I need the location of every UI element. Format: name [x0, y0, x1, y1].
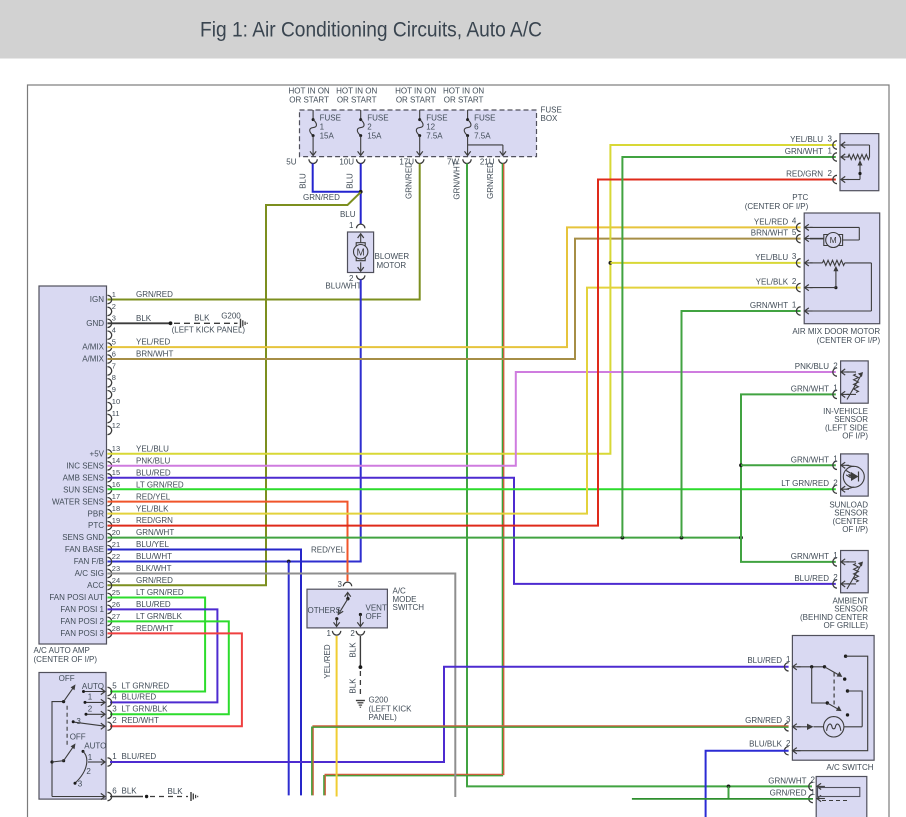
svg-text:GND: GND — [86, 319, 104, 328]
label A/C AUTO AMP — [34, 646, 98, 664]
svg-text:BLK: BLK — [194, 314, 210, 323]
HOT IN ON OR START label (fuse 2) — [336, 87, 377, 105]
wire BLU/YEL amp pin 21 — [108, 550, 302, 796]
fan switch wafer 1 contacts — [72, 682, 105, 729]
svg-text:RED/WHT: RED/WHT — [136, 624, 173, 633]
svg-text:2: 2 — [811, 776, 816, 785]
svg-text:BLU/WHT: BLU/WHT — [325, 282, 361, 291]
svg-text:(CENTER OF I/P): (CENTER OF I/P) — [34, 655, 98, 664]
connector 10U — [339, 158, 365, 167]
svg-text:1: 1 — [792, 300, 797, 309]
wire BLU from 10U to blower — [360, 164, 362, 225]
svg-text:3: 3 — [786, 715, 791, 724]
wire BLU/RED amp pin 15 to ambient sensor pin 2 — [108, 478, 836, 584]
air mix pin 4 connector — [754, 217, 813, 232]
svg-text:10: 10 — [112, 397, 120, 406]
svg-text:(LEFT KICK PANEL): (LEFT KICK PANEL) — [172, 326, 246, 335]
svg-text:SUN SENS: SUN SENS — [63, 485, 104, 494]
air mix pin 5 connector — [751, 228, 813, 243]
svg-text:BLOWER: BLOWER — [375, 252, 410, 261]
svg-text:IGN: IGN — [90, 295, 104, 304]
wire GRN/WHT sensor ground bus — [108, 537, 742, 539]
svg-text:YEL/BLU: YEL/BLU — [136, 444, 169, 453]
svg-text:INC SENS: INC SENS — [66, 461, 104, 470]
svg-text:BLK: BLK — [136, 314, 152, 323]
svg-text:PNK/BLU: PNK/BLU — [136, 456, 170, 465]
fuse 12 (7.5A) — [416, 110, 447, 156]
svg-text:4: 4 — [112, 692, 117, 701]
svg-text:LT GRN/BLK: LT GRN/BLK — [136, 612, 183, 621]
junction dot bus sensor branch — [739, 536, 743, 540]
svg-text:BLU/RED: BLU/RED — [136, 600, 171, 609]
svg-text:LT GRN/RED: LT GRN/RED — [136, 588, 184, 597]
wire BLU/RED amp pin 26 to fan switch pin 4 — [108, 609, 218, 702]
svg-text:GRN/RED: GRN/RED — [136, 290, 173, 299]
svg-text:26: 26 — [112, 600, 120, 609]
svg-text:2: 2 — [350, 629, 355, 638]
svg-text:OFF: OFF — [59, 674, 75, 683]
fan switch wafer 2 arm — [64, 732, 86, 760]
amp pin 28 (FAN POSI 3) — [60, 624, 173, 638]
svg-text:6: 6 — [474, 123, 479, 132]
amp pin 13 (+5V) — [90, 444, 170, 458]
svg-text:HOT IN ON: HOT IN ON — [289, 87, 330, 96]
amp pin 23 (A/C SIG) — [75, 564, 172, 578]
connector 17U — [399, 158, 424, 167]
amp pin 1 (IGN) — [90, 290, 173, 304]
svg-text:GRN/RED: GRN/RED — [770, 789, 807, 798]
svg-text:7: 7 — [112, 361, 116, 370]
svg-text:4: 4 — [792, 217, 797, 226]
svg-text:2: 2 — [112, 716, 117, 725]
PTC pin 1 connector — [785, 146, 849, 161]
svg-text:1: 1 — [833, 384, 838, 393]
label IN-VEHICLE SENSOR — [823, 407, 868, 441]
svg-text:12: 12 — [112, 421, 120, 430]
svg-text:+5V: +5V — [90, 449, 105, 458]
fan switch pin 5 — [108, 682, 170, 696]
svg-text:GRN/RED: GRN/RED — [303, 193, 340, 202]
svg-text:25: 25 — [112, 588, 120, 597]
svg-text:(LEFT KICK: (LEFT KICK — [369, 704, 413, 713]
fuse box — [300, 106, 562, 157]
amp pin 5 (A/MIX) — [82, 338, 170, 352]
svg-text:8: 8 — [112, 373, 116, 382]
junction dot BLU/WHT — [287, 560, 291, 564]
fan switch pin 6 common to ground — [52, 793, 105, 799]
svg-text:GRN/RED: GRN/RED — [405, 162, 414, 199]
svg-text:28: 28 — [112, 624, 120, 633]
svg-text:BLU/YEL: BLU/YEL — [136, 540, 169, 549]
label GRN/RED (ACC net) — [303, 193, 340, 202]
fan switch wafer 2 pivot — [50, 759, 65, 764]
svg-text:FAN F/B: FAN F/B — [74, 557, 104, 566]
svg-text:18: 18 — [112, 504, 120, 513]
wire GRN/WHT from 7W — [467, 164, 812, 787]
A/C switch pin 2 connector — [749, 739, 801, 755]
amp pin 7 — [108, 361, 116, 375]
svg-text:2: 2 — [833, 361, 838, 370]
mode switch labels — [308, 603, 387, 621]
amp pin 12 — [108, 421, 121, 435]
svg-text:11: 11 — [112, 409, 120, 418]
junction dot sunload pin 1 — [739, 463, 743, 467]
svg-text:PNK/BLU: PNK/BLU — [795, 362, 829, 371]
svg-text:RED/WHT: RED/WHT — [122, 716, 159, 725]
label SUNLOAD SENSOR — [829, 501, 868, 535]
amp pin 3 (GND) — [86, 314, 152, 328]
fan switch pin 1 — [108, 752, 157, 766]
svg-text:GRN/WHT: GRN/WHT — [791, 384, 829, 393]
svg-text:15A: 15A — [320, 131, 335, 140]
wire YEL/RED mode switch pin 1 — [336, 636, 338, 797]
svg-text:PTC: PTC — [88, 521, 104, 530]
label PTC — [745, 193, 809, 211]
wire BLK amp pin 3 to G200 — [108, 311, 248, 334]
amp pin 16 (SUN SENS) — [63, 480, 184, 494]
svg-text:OR START: OR START — [289, 95, 329, 104]
svg-text:A/MIX: A/MIX — [82, 355, 104, 364]
svg-text:GRN/WHT: GRN/WHT — [785, 147, 823, 156]
svg-text:GRN/WHT: GRN/WHT — [136, 528, 174, 537]
connector 21U — [480, 158, 507, 167]
label BLK lower (rotated) — [349, 678, 358, 694]
wire RED/GRN amp pin 19 to PTC pin 2 — [108, 180, 836, 526]
air mix potentiometer — [805, 260, 871, 311]
svg-text:AMB SENS: AMB SENS — [63, 473, 104, 482]
wire GRN/RED to A/C switch pin 3 (green line) — [312, 727, 789, 795]
svg-text:OF I/P): OF I/P) — [842, 432, 868, 441]
svg-text:BOX: BOX — [541, 114, 559, 123]
A/C switch box — [792, 636, 874, 761]
in-vehicle thermistor — [847, 372, 864, 400]
amp pin 26 (FAN POSI 1) — [60, 600, 170, 614]
svg-text:2: 2 — [833, 479, 838, 488]
svg-text:2: 2 — [86, 767, 91, 776]
svg-text:SENS GND: SENS GND — [62, 533, 104, 542]
svg-text:5U: 5U — [286, 158, 296, 167]
junction dot bus PTC branch — [621, 536, 625, 540]
svg-text:2: 2 — [88, 705, 93, 714]
svg-text:22: 22 — [112, 552, 120, 561]
svg-text:1: 1 — [88, 753, 93, 762]
svg-text:GRN/WHT: GRN/WHT — [453, 161, 462, 199]
svg-text:1: 1 — [833, 455, 838, 464]
label YEL/RED (rotated) — [323, 644, 332, 678]
ambient pin 1 connector — [791, 551, 849, 566]
label GRN/WHT (7W wire) — [453, 161, 462, 199]
svg-text:BLU/RED: BLU/RED — [136, 468, 171, 477]
amp pin 6 (A/MIX) — [82, 349, 173, 363]
wire BLK fan switch pin 6 to ground — [110, 787, 198, 801]
wire GRN/RED 17U to IGN pin 1 — [108, 164, 420, 300]
wire BRN/WHT amp pin 6 to air mix pin 5 — [108, 239, 801, 359]
A/C switch lamp — [797, 717, 862, 737]
fan switch wafer 1 common — [52, 700, 65, 797]
label A/C MODE SWITCH — [393, 587, 425, 613]
svg-text:BLU: BLU — [340, 210, 356, 219]
svg-text:OFF: OFF — [366, 612, 382, 621]
amp pin 11 — [108, 409, 120, 423]
ambient sensor box — [841, 551, 869, 593]
wire GRN/RED to thermo amp pin 1 — [632, 798, 813, 800]
label BLU/WHT (blower) — [325, 282, 361, 291]
svg-text:A/C SWITCH: A/C SWITCH — [826, 763, 873, 772]
A/C mode switch box — [307, 589, 387, 628]
svg-text:OFF: OFF — [70, 732, 86, 741]
in-vehicle pin 1 connector — [791, 384, 849, 399]
svg-text:ACC: ACC — [87, 581, 104, 590]
svg-text:1: 1 — [327, 629, 332, 638]
svg-text:13: 13 — [112, 444, 120, 453]
fan switch pin 2 — [108, 716, 159, 730]
svg-text:WATER SENS: WATER SENS — [52, 497, 104, 506]
svg-text:BRN/WHT: BRN/WHT — [136, 350, 173, 359]
svg-text:AUTO: AUTO — [84, 742, 106, 751]
title bar — [0, 0, 906, 59]
ambient thermistor — [847, 562, 864, 590]
air mix door motor box — [804, 213, 880, 324]
svg-text:BLK: BLK — [349, 642, 358, 658]
wire BLK/WHT amp pin 23 — [108, 574, 456, 798]
label GRN/RED (17U wire) — [405, 162, 414, 199]
svg-text:BLK: BLK — [349, 678, 358, 694]
svg-text:21: 21 — [112, 540, 120, 549]
svg-text:LT GRN/BLK: LT GRN/BLK — [122, 704, 169, 713]
svg-text:5: 5 — [792, 228, 797, 237]
amp pin 19 (PTC) — [88, 516, 173, 530]
svg-text:RED/GRN: RED/GRN — [786, 170, 823, 179]
amp pin 9 — [108, 385, 116, 399]
wire LT GRN/BLK amp pin 27 to fan switch pin 3 — [108, 621, 229, 714]
HOT IN ON OR START label (fuse 6) — [443, 87, 484, 105]
fan switch mechanical link (dashed) — [66, 706, 68, 748]
svg-text:3: 3 — [338, 580, 343, 589]
wire RED/WHT amp pin 28 to fan switch pin 2 — [108, 633, 242, 726]
amp pin 21 (FAN BASE) — [65, 540, 170, 554]
PTC pin 3 connector — [790, 134, 849, 149]
amp pin 14 (INC SENS) — [66, 456, 170, 470]
amp pin 22 (FAN F/B) — [74, 552, 172, 566]
connector 7W — [447, 158, 471, 167]
amp pin 2 — [108, 302, 116, 316]
wire BLU/BLK to A/C switch pin 2 — [706, 751, 789, 817]
amp pin 4 — [108, 326, 116, 340]
amp pin 17 (WATER SENS) — [52, 492, 171, 506]
svg-text:GRN/RED: GRN/RED — [486, 162, 495, 199]
svg-text:YEL/RED: YEL/RED — [323, 644, 332, 678]
label AIR MIX DOOR MOTOR — [792, 327, 880, 345]
svg-text:AIR MIX DOOR MOTOR: AIR MIX DOOR MOTOR — [792, 327, 880, 336]
PTC pin 2 connector — [786, 169, 849, 184]
amp pin 18 (PBR) — [88, 504, 170, 518]
svg-text:PANEL): PANEL) — [369, 713, 398, 722]
svg-text:6: 6 — [112, 787, 117, 796]
svg-text:FUSE: FUSE — [367, 114, 388, 123]
svg-text:FAN BASE: FAN BASE — [65, 545, 104, 554]
svg-text:YEL/BLK: YEL/BLK — [136, 504, 169, 513]
svg-text:A/C AUTO AMP: A/C AUTO AMP — [34, 646, 90, 655]
svg-text:9: 9 — [112, 385, 116, 394]
fan switch wafer 2 contacts — [74, 742, 107, 789]
svg-text:BLU/RED: BLU/RED — [794, 574, 829, 583]
svg-text:1: 1 — [786, 655, 791, 664]
label G200 (mode switch) — [369, 696, 413, 723]
connector 5U — [286, 158, 317, 167]
mode switch pin 2 connector — [350, 629, 364, 638]
svg-text:RED/YEL: RED/YEL — [136, 492, 171, 501]
svg-text:BLK/WHT: BLK/WHT — [136, 564, 172, 573]
svg-text:FUSE: FUSE — [426, 114, 447, 123]
blower motor M symbol — [354, 243, 368, 261]
svg-text:SWITCH: SWITCH — [393, 603, 425, 612]
svg-text:23: 23 — [112, 564, 120, 573]
label BLK upper (rotated) — [349, 642, 358, 658]
svg-text:FAN POSI 1: FAN POSI 1 — [60, 605, 104, 614]
wire GRN/WHT PTC pin 1 branch — [622, 157, 835, 538]
svg-text:1: 1 — [349, 221, 354, 230]
wire RED/YEL amp pin 17 to mode switch pin 3 — [108, 502, 348, 582]
svg-text:G200: G200 — [221, 311, 241, 320]
svg-text:YEL/RED: YEL/RED — [136, 338, 170, 347]
svg-text:10U: 10U — [339, 158, 354, 167]
svg-text:A/MIX: A/MIX — [82, 343, 104, 352]
sunload pin 1 connector — [791, 455, 849, 470]
svg-text:OR START: OR START — [337, 95, 377, 104]
junction dot bus air mix branch — [680, 536, 684, 540]
svg-text:1: 1 — [112, 290, 116, 299]
svg-text:3: 3 — [828, 134, 833, 143]
svg-text:BRN/WHT: BRN/WHT — [751, 229, 788, 238]
svg-text:RED/YEL: RED/YEL — [311, 545, 346, 554]
svg-text:15: 15 — [112, 468, 120, 477]
svg-text:YEL/BLU: YEL/BLU — [790, 135, 823, 144]
amp pin 15 (AMB SENS) — [63, 468, 171, 482]
svg-text:AUTO: AUTO — [82, 682, 104, 691]
junction dot GRN/WHT bottom — [727, 785, 731, 789]
wire YEL/RED amp pin 5 to air mix pin 4 — [108, 227, 801, 347]
svg-text:LT GRN/RED: LT GRN/RED — [781, 479, 829, 488]
A/C switch pin 3 connector — [745, 715, 800, 731]
svg-text:24: 24 — [112, 576, 120, 585]
svg-text:3: 3 — [792, 252, 797, 261]
A/C switch pin 1 connector — [747, 655, 800, 671]
svg-text:OR START: OR START — [444, 95, 484, 104]
svg-text:LT GRN/RED: LT GRN/RED — [136, 480, 184, 489]
svg-text:BLK: BLK — [122, 787, 138, 796]
wire LT GRN/RED amp pin 25 to fan switch pin 5 — [108, 597, 206, 691]
svg-text:FAN POSI AUT: FAN POSI AUT — [49, 593, 104, 602]
svg-text:PTC: PTC — [792, 193, 808, 202]
wire LT GRN/RED amp pin 16 to sunload sensor pin 2 — [108, 488, 836, 490]
svg-text:1: 1 — [88, 693, 93, 702]
svg-text:12: 12 — [426, 123, 435, 132]
svg-text:3: 3 — [76, 717, 81, 726]
svg-text:3: 3 — [78, 780, 83, 789]
svg-text:1: 1 — [112, 752, 117, 761]
wire BLU/WHT branch down — [288, 562, 290, 796]
fan switch wafer 1 arm — [59, 674, 76, 702]
svg-text:16: 16 — [112, 480, 120, 489]
PTC internal resistor — [847, 145, 870, 180]
svg-text:FAN POSI 3: FAN POSI 3 — [60, 629, 104, 638]
amp pin 27 (FAN POSI 2) — [60, 612, 182, 626]
wire GRN/WHT sensors vertical — [741, 394, 836, 562]
svg-text:YEL/BLK: YEL/BLK — [756, 278, 789, 287]
svg-text:OF GRILLE): OF GRILLE) — [824, 621, 869, 630]
svg-text:M: M — [357, 248, 365, 259]
svg-text:OR START: OR START — [396, 95, 436, 104]
svg-text:GRN/WHT: GRN/WHT — [750, 301, 788, 310]
svg-text:GRN/WHT: GRN/WHT — [791, 552, 829, 561]
svg-text:(CENTER OF I/P): (CENTER OF I/P) — [745, 202, 809, 211]
amp pin 20 (SENS GND) — [62, 528, 174, 542]
svg-text:PBR: PBR — [88, 509, 105, 518]
wire GRN/RED ACC net — [108, 192, 361, 585]
label A/C SWITCH — [826, 763, 873, 772]
fan switch box — [39, 673, 106, 800]
svg-text:20: 20 — [112, 528, 120, 537]
svg-text:BLU/BLK: BLU/BLK — [749, 740, 783, 749]
wire BLU/RED fan switch pin 1 to A/C switch pin 1 — [110, 667, 789, 762]
wire YEL/BLK amp pin 18 to air mix pin 2 — [108, 288, 801, 514]
svg-text:BLU/RED: BLU/RED — [122, 752, 157, 761]
fuse 1 (15A) — [310, 110, 341, 156]
svg-text:BLU: BLU — [346, 173, 355, 189]
svg-text:FUSE: FUSE — [320, 114, 341, 123]
svg-text:GRN/WHT: GRN/WHT — [768, 776, 806, 785]
svg-text:Fig 1: Air Conditioning Circui: Fig 1: Air Conditioning Circuits, Auto A… — [200, 19, 542, 42]
junction dot YEL/BLU — [609, 261, 613, 265]
svg-text:HOT IN ON: HOT IN ON — [443, 87, 484, 96]
svg-text:RED/GRN: RED/GRN — [136, 516, 173, 525]
air mix motor symbol — [824, 233, 843, 248]
thermo amp pin 1 connector — [770, 788, 825, 803]
svg-text:OTHERS: OTHERS — [308, 606, 341, 615]
svg-text:(CENTER OF I/P): (CENTER OF I/P) — [817, 336, 881, 345]
blower motor down arrow — [358, 262, 364, 271]
svg-text:17: 17 — [112, 492, 120, 501]
blower motor pin 2 connector — [349, 274, 365, 283]
junction dot BLU — [359, 190, 363, 194]
thermo amp internal lines — [818, 788, 860, 801]
svg-text:2: 2 — [792, 277, 797, 286]
svg-text:YEL/RED: YEL/RED — [754, 217, 788, 226]
wire GRN/WHT air mix pin 1 branch — [682, 311, 801, 538]
fuse 6 branch wire to 21U — [468, 145, 506, 156]
label BLOWER MOTOR — [375, 252, 410, 270]
HOT IN ON OR START label (fuse 12) — [395, 87, 436, 105]
svg-text:OF I/P): OF I/P) — [842, 525, 868, 534]
ambient pin 2 connector — [794, 573, 849, 588]
svg-text:4: 4 — [112, 326, 116, 335]
thermo amp pin 2 connector — [768, 776, 825, 791]
thermo control amp box (cut off) — [816, 777, 867, 817]
svg-text:14: 14 — [112, 456, 120, 465]
svg-text:FAN POSI 2: FAN POSI 2 — [60, 617, 104, 626]
svg-text:1: 1 — [833, 551, 838, 560]
fuse 6 (7.5A) — [464, 110, 495, 156]
mode switch pin 1 connector — [327, 629, 341, 638]
svg-text:G200: G200 — [369, 696, 389, 705]
air mix motor wiring — [810, 227, 859, 240]
PTC box — [840, 134, 879, 191]
svg-text:HOT IN ON: HOT IN ON — [395, 87, 436, 96]
amp pin 25 (FAN POSI AUT) — [49, 588, 184, 602]
svg-text:5: 5 — [112, 338, 116, 347]
svg-text:5: 5 — [112, 682, 117, 691]
A/C switch internal switch — [794, 655, 868, 751]
